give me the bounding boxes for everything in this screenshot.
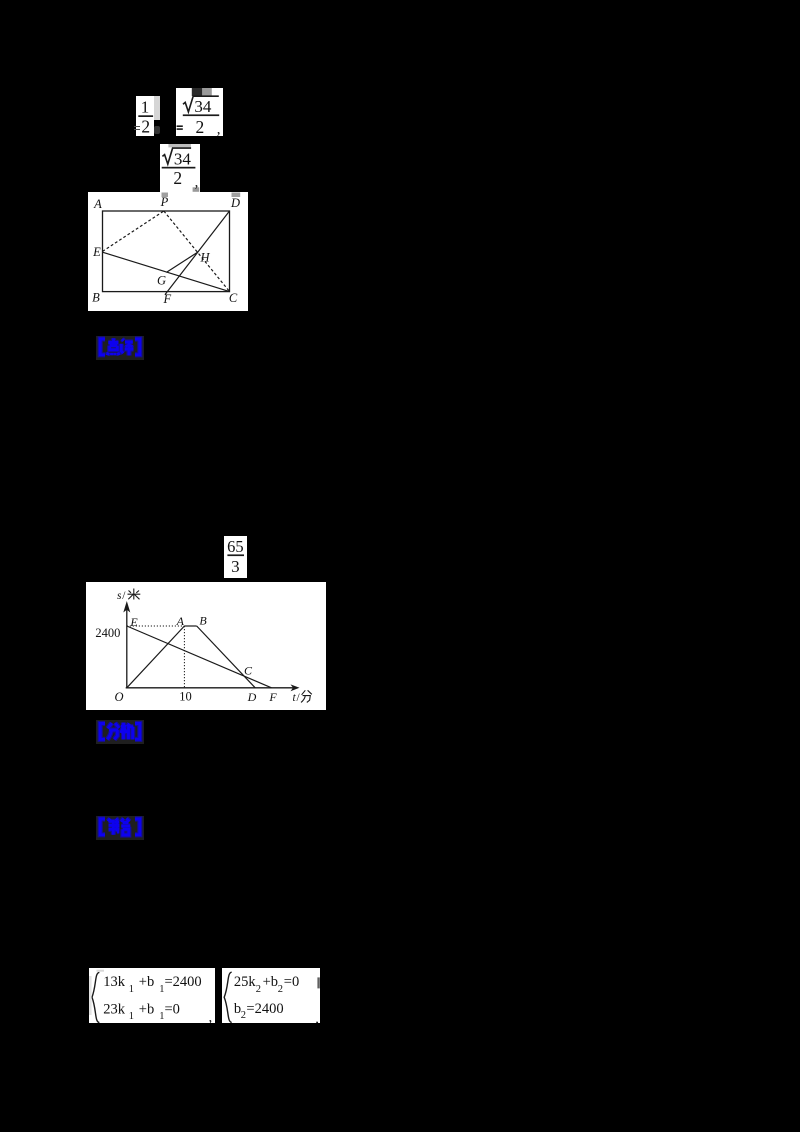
svg-text:=2400: =2400 [164,974,201,990]
equation system 2 [222,968,320,1023]
left curly brace [225,972,233,1022]
svg-text:25k: 25k [234,974,257,990]
svg-text:,: , [316,1011,320,1023]
light gray strip left edge [89,976,92,1015]
svg-text:,: , [217,122,221,137]
right bracket [135,819,140,835]
svg-text:+b: +b [138,974,153,990]
right bracket [135,339,140,355]
blue label 3 (jieda) [96,816,144,840]
svg-text:2: 2 [278,984,283,995]
distance-time graph white box [86,582,326,710]
fraction =sqrt(34)/2 white box [176,88,223,136]
svg-text:s: s [117,590,122,602]
svg-text:2: 2 [241,1010,246,1021]
y-axis arrowhead [124,601,131,613]
blue label 2 (fenxi) [96,720,144,744]
line E-F [127,626,272,688]
svg-text:2: 2 [256,984,261,995]
segment A-B [185,625,197,627]
svg-text:F: F [162,292,171,306]
dark artifact strip right edge [318,977,320,988]
svg-text:D: D [229,196,239,210]
char xi strokes [121,723,134,740]
solid segment D-F [165,211,230,295]
radical sign [183,96,219,112]
left bracket [100,724,105,740]
svg-text:C: C [228,291,237,305]
svg-text:23k: 23k [103,1001,126,1017]
fraction sqrt(34)/2 (second) content [160,144,201,192]
fraction 1/2 white box [136,96,154,136]
fraction 65/3 white box [224,536,248,578]
equals sign before fraction 1/2 [134,126,139,128]
left bracket [100,339,105,355]
fraction 1/2 content [136,96,154,137]
svg-text:B: B [200,614,208,628]
solid segment G-H [166,252,197,272]
left bracket [100,819,105,835]
radical sign [162,148,191,164]
equals sign [177,126,183,128]
blue label 1 (dianping) [96,336,144,360]
y-axis [126,608,128,688]
svg-text:65: 65 [227,537,244,556]
svg-text:D: D [247,690,257,704]
distance-time graph [86,582,326,710]
svg-text:10: 10 [180,690,193,704]
gray block under comma [192,187,199,192]
svg-text:=0: =0 [164,1001,179,1017]
geometry figure rectangle ABCD with points P,E,G,H,F [88,192,249,311]
svg-text:A: A [176,614,185,628]
rectangle ABCD [102,211,229,292]
gray artifact strip right of 1/2 [154,96,160,120]
gray artifact above P [161,193,168,198]
svg-text:G: G [156,274,165,288]
x-axis arrowhead [291,685,300,692]
line B-D [197,626,256,688]
fraction bar [161,167,195,169]
gray artifact above D [231,193,240,198]
svg-text:2: 2 [141,116,150,136]
svg-text:2400: 2400 [96,626,121,640]
char jie strokes [108,819,120,835]
svg-text:/: / [297,692,301,704]
dashed segment P-C [163,211,228,291]
svg-text:,: , [208,1010,212,1024]
svg-text:=0: =0 [284,974,299,990]
geometry figure white box [88,192,249,311]
svg-text:34: 34 [174,149,192,168]
svg-text:+b: +b [263,974,278,990]
svg-text:2: 2 [196,117,205,136]
svg-text:,: , [194,174,198,190]
svg-text:1: 1 [128,1011,133,1022]
svg-text:34: 34 [195,97,213,116]
svg-text:1: 1 [128,984,133,995]
dotted line A to x-axis [184,626,186,688]
svg-text:F: F [269,690,278,704]
char da strokes [121,819,130,836]
svg-text:O: O [115,690,124,704]
svg-text:P: P [159,195,168,209]
solid segment E-C [102,252,229,291]
line O-A [127,626,185,688]
char fen strokes [107,723,119,740]
fraction bar [183,115,219,117]
svg-text:2: 2 [173,168,182,188]
svg-text:=2400: =2400 [247,1001,284,1017]
svg-text:3: 3 [231,557,240,576]
fraction 65/3 content [224,536,248,578]
svg-text:/: / [123,590,127,602]
svg-text:A: A [93,197,102,211]
equation system 2 white box [222,968,319,1023]
right bracket [135,724,140,740]
equation system 1 [89,968,215,1023]
svg-text:13k: 13k [103,974,126,990]
left curly brace [92,972,99,1022]
svg-text:C: C [244,664,253,678]
svg-text:+b: +b [138,1001,153,1017]
dotted line E-A [127,625,185,627]
svg-text:H: H [199,251,210,265]
equation system 1 white box [89,968,215,1023]
svg-text:1: 1 [141,97,150,116]
svg-text:E: E [130,615,139,629]
svg-text:E: E [92,245,101,259]
dashed segment E-P [102,211,163,251]
artifact blocks at top [192,88,203,96]
char ping strokes [121,339,133,356]
fraction sqrt(34)/2 (second) white box [160,144,201,192]
x-axis [126,687,294,689]
fraction =sqrt(34)/2 content [176,88,224,136]
char dian strokes [107,338,119,355]
svg-text:B: B [92,291,100,305]
